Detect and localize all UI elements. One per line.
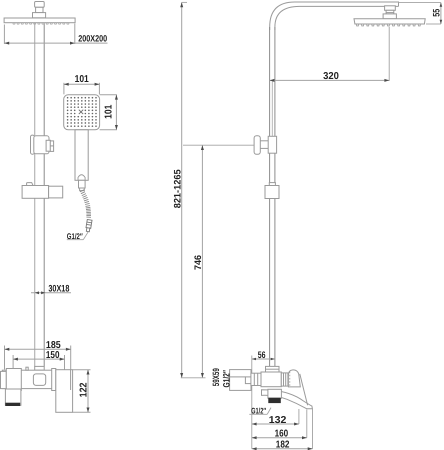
union nut xyxy=(251,373,261,385)
overhead head side view xyxy=(354,19,425,24)
spout front xyxy=(5,389,21,405)
aerator dark band xyxy=(6,403,20,405)
dimension 320 xyxy=(388,27,390,81)
svg-text:746: 746 xyxy=(193,255,204,270)
left flange xyxy=(6,369,21,391)
svg-text:320: 320 xyxy=(323,71,339,82)
mixer inlet nut xyxy=(35,366,45,370)
dimension 55 xyxy=(399,2,441,4)
handle outlet connector xyxy=(79,180,86,188)
dimension 821-1265 xyxy=(181,2,183,377)
hose elbow on pipe xyxy=(269,183,275,186)
mixer top nut side xyxy=(266,366,280,372)
dimension 101 horizontal (hand shower width) xyxy=(63,83,65,95)
svg-text:30X18: 30X18 xyxy=(48,283,69,294)
right nut xyxy=(281,373,288,386)
dimension 30X18 (pipe section) xyxy=(31,292,71,294)
svg-text:132: 132 xyxy=(269,415,287,426)
hose end nut xyxy=(85,219,92,231)
hand shower handle xyxy=(75,130,88,181)
slider holder on pipe xyxy=(31,135,35,154)
inner hose line xyxy=(271,81,273,136)
right flange xyxy=(52,369,56,391)
column pipe side view xyxy=(269,27,271,367)
dimension 150 xyxy=(12,355,14,368)
wall side cap xyxy=(1,371,7,388)
svg-text:101: 101 xyxy=(104,104,115,119)
svg-text:182: 182 xyxy=(276,440,290,450)
svg-text:150: 150 xyxy=(46,350,60,361)
dimension 160 xyxy=(306,410,308,438)
handle inner cone xyxy=(78,175,85,181)
wall bracket knob xyxy=(49,186,63,198)
slider knob xyxy=(46,140,50,151)
overhead shower head front view xyxy=(4,18,75,23)
body top tab xyxy=(26,367,28,370)
mixer body front view xyxy=(2,370,59,388)
outlet below body xyxy=(268,389,282,398)
overhead shower top connector xyxy=(35,2,45,8)
wall escutcheon plate 59x59 side view xyxy=(230,370,251,391)
mixer lever handle side xyxy=(288,370,300,387)
svg-text:821-1265: 821-1265 xyxy=(172,169,183,209)
common extension line xyxy=(181,377,206,379)
waterfall spout side view xyxy=(262,390,313,409)
hand shower head xyxy=(64,95,100,130)
outlet dark band xyxy=(269,398,281,402)
holder knob side view xyxy=(254,136,260,155)
dimension 182 xyxy=(312,409,314,449)
spout back edge xyxy=(300,374,308,405)
svg-text:101: 101 xyxy=(75,74,90,85)
svg-text:122: 122 xyxy=(78,382,89,397)
svg-text:55: 55 xyxy=(432,8,443,17)
center x mark xyxy=(79,110,83,114)
shower arm with bend xyxy=(270,2,399,30)
center plate xyxy=(33,374,45,386)
dimension 185 xyxy=(4,346,6,370)
wall bracket tab xyxy=(27,183,33,186)
holder clamp xyxy=(268,136,276,153)
svg-text:160: 160 xyxy=(275,428,289,439)
dimension 132 xyxy=(298,409,300,424)
flexible hose (ribbed) xyxy=(80,190,91,219)
spray nozzle dots xyxy=(67,97,97,127)
mixer handle front xyxy=(56,370,73,413)
svg-text:56: 56 xyxy=(258,350,266,361)
head connector side xyxy=(385,6,396,11)
dimension 101 vertical (hand shower height) xyxy=(100,94,117,96)
dimension 122 xyxy=(73,369,91,371)
dimension 746 xyxy=(183,144,254,146)
mixer body side view xyxy=(261,372,281,387)
svg-text:59X59: 59X59 xyxy=(211,368,221,386)
svg-text:200X200: 200X200 xyxy=(78,34,107,44)
svg-text:G1/2″: G1/2″ xyxy=(221,370,231,388)
dimension 56 xyxy=(251,356,253,449)
wall bracket body xyxy=(22,186,48,199)
dimension 200X200 xyxy=(3,25,5,44)
inlet boss xyxy=(245,377,251,384)
riser pipe left view xyxy=(34,19,36,367)
